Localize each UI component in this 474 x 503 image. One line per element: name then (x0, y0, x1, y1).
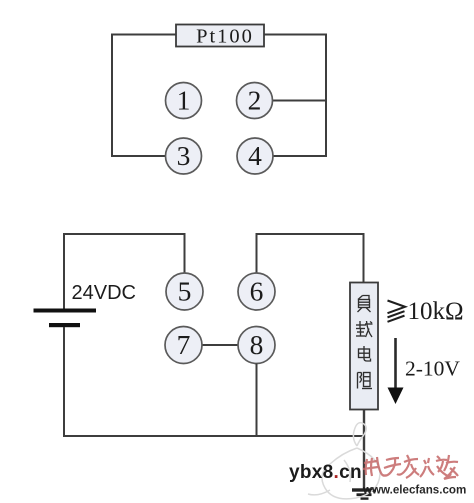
svg-text:4: 4 (248, 140, 262, 171)
terminal 5 (166, 273, 203, 310)
svg-text:7: 7 (177, 329, 191, 360)
ground bar 1 (352, 488, 376, 491)
arrow 2-10V head (388, 388, 404, 405)
svg-text:10kΩ: 10kΩ (408, 298, 464, 325)
wire: terminal 6 to load resistor top (257, 234, 364, 282)
watermark swirl logo (308, 423, 380, 499)
svg-text:3: 3 (177, 140, 191, 171)
wire: terminal 4 to right bus (273, 155, 327, 157)
wire: terminal 2 to right bus (272, 100, 327, 102)
svg-text:6: 6 (250, 276, 264, 307)
wire: Pt100 right lead down right bus (264, 35, 326, 157)
terminal 3 (166, 138, 202, 174)
terminal 6 (238, 273, 275, 310)
wire: terminal 8 to bottom bus (256, 364, 258, 437)
svg-text:8: 8 (250, 329, 264, 360)
wire: battery positive lead to terminal 5 (64, 234, 185, 309)
svg-text:Pt100: Pt100 (196, 26, 254, 48)
watermark 电子发烧友 stylized (363, 455, 458, 479)
ground bar 3 (361, 497, 369, 499)
wire: load resistor to ground (363, 409, 365, 490)
sensor Pt100 (176, 25, 264, 47)
wire: bottom bus (63, 435, 365, 437)
svg-text:2-10V: 2-10V (405, 357, 460, 381)
battery BT1 plate short (49, 323, 80, 327)
terminal 2 (237, 83, 273, 119)
arrow 2-10V shaft (394, 338, 397, 389)
svg-text:1: 1 (177, 85, 191, 116)
terminal 7 (165, 327, 202, 364)
battery BT1 plate long (34, 309, 97, 313)
svg-text:2: 2 (248, 85, 262, 116)
ground bar 2 (357, 493, 372, 496)
svg-text:24VDC: 24VDC (72, 282, 136, 304)
terminal 8 (238, 327, 275, 364)
wire: Pt100 left lead to terminal 3 (112, 35, 176, 157)
wire: terminal 7 to terminal 8 (202, 344, 239, 346)
terminal 1 (166, 83, 202, 119)
label 阻 (load char 4) (358, 373, 373, 389)
wire: battery negative lead (63, 327, 65, 437)
label 载 (load char 2) (356, 321, 373, 337)
label >= symbol (388, 301, 406, 322)
resistor RL load box (350, 283, 378, 410)
label 负 (load char 1) (358, 296, 371, 313)
terminal 4 (237, 138, 273, 174)
svg-text:ybx8.cn: ybx8.cn (289, 462, 362, 483)
label 电 (load char 3) (359, 346, 371, 361)
svg-text:www.elecfans.com: www.elecfans.com (362, 484, 466, 497)
svg-text:5: 5 (178, 276, 192, 307)
